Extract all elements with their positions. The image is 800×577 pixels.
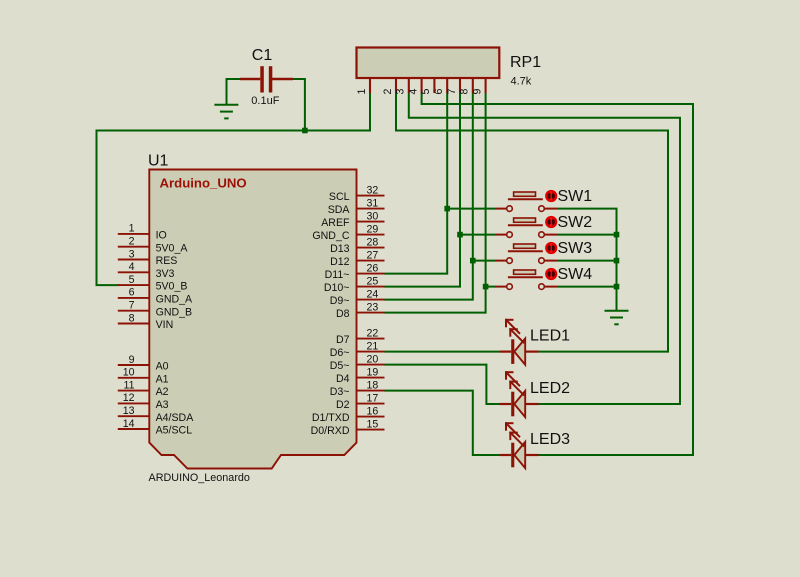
svg-text:U1: U1	[148, 153, 169, 170]
svg-text:D12: D12	[330, 256, 350, 268]
junction SW3 on ground rail	[614, 258, 620, 264]
svg-text:GND_C: GND_C	[312, 230, 349, 242]
SW4 red actuator button	[546, 268, 557, 279]
U1 pin 28 (D13)	[330, 236, 384, 255]
svg-text:25: 25	[367, 275, 379, 287]
switch SW2	[496, 218, 558, 237]
wire SW3 left terminal branch	[473, 260, 497, 262]
svg-text:17: 17	[367, 392, 379, 404]
U1 pin 17 (D2)	[336, 392, 385, 411]
wire RP1 pin6 to U1 pin26 D11	[385, 93, 448, 274]
svg-text:IO: IO	[156, 230, 167, 242]
U1 pin 7 (GND_B)	[118, 300, 192, 319]
U1 pin 18 (D3~)	[330, 379, 385, 398]
wire U1 pin21 D6 to LED1 cathode	[385, 351, 501, 353]
wire RP1 pin7 to U1 pin25 D10	[385, 93, 461, 287]
ground at C1	[214, 105, 238, 119]
IC U1 Arduino_UNO body	[149, 170, 356, 469]
svg-text:7: 7	[446, 88, 458, 94]
svg-text:0.1uF: 0.1uF	[251, 95, 279, 107]
svg-text:LED2: LED2	[530, 380, 570, 397]
svg-text:13: 13	[123, 405, 135, 417]
svg-text:9: 9	[471, 88, 483, 94]
svg-text:5V0_B: 5V0_B	[156, 281, 188, 293]
svg-text:SW1: SW1	[558, 188, 593, 205]
junction SW4 branch on RP1 pin9 column	[483, 284, 489, 290]
U1 pin 9 (A0)	[118, 354, 169, 373]
svg-text:D3~: D3~	[330, 386, 350, 398]
svg-text:D10~: D10~	[324, 282, 350, 294]
wire VCC net: RP1 pin1 to U1 pin5 5V0_B	[97, 93, 371, 285]
svg-text:7: 7	[129, 300, 135, 312]
wire SW1 left terminal branch	[447, 208, 496, 210]
svg-text:1: 1	[356, 88, 368, 94]
svg-text:15: 15	[367, 418, 379, 430]
svg-text:A5/SCL: A5/SCL	[156, 425, 193, 437]
svg-text:D0/RXD: D0/RXD	[311, 425, 350, 437]
svg-text:4: 4	[129, 261, 135, 273]
svg-text:GND_A: GND_A	[156, 294, 193, 306]
svg-text:22: 22	[367, 327, 379, 339]
LED LED1	[500, 319, 539, 365]
svg-text:2: 2	[382, 88, 394, 94]
capacitor C1	[240, 66, 293, 92]
svg-text:28: 28	[367, 236, 379, 248]
LED LED2	[500, 371, 539, 417]
svg-text:30: 30	[367, 210, 379, 222]
svg-text:D5~: D5~	[330, 360, 350, 372]
svg-text:ARDUINO_Leonardo: ARDUINO_Leonardo	[149, 472, 250, 484]
U1 pin 20 (D5~)	[330, 353, 385, 372]
svg-text:LED1: LED1	[530, 328, 570, 345]
svg-text:16: 16	[367, 405, 379, 417]
U1 pin 13 (A4/SDA)	[118, 405, 194, 424]
svg-text:D13: D13	[330, 243, 350, 255]
svg-text:VIN: VIN	[156, 319, 174, 331]
U1 pin 21 (D6~)	[330, 340, 385, 359]
junction C1/VCC rail	[302, 128, 308, 134]
svg-text:23: 23	[367, 301, 379, 313]
junction SW3 branch on RP1 pin8 column	[470, 258, 476, 264]
svg-text:AREF: AREF	[321, 217, 350, 229]
svg-text:3: 3	[129, 248, 135, 260]
svg-text:A0: A0	[156, 361, 169, 373]
U1 pin 8 (VIN)	[118, 312, 173, 331]
wire SW4 right terminal to ground rail	[558, 286, 617, 288]
U1 pin 10 (A1)	[118, 367, 169, 386]
svg-text:C1: C1	[252, 47, 273, 64]
svg-text:10: 10	[123, 367, 135, 379]
svg-text:D1/TXD: D1/TXD	[312, 412, 350, 424]
wire RP1 pin4 to LED3 anode	[422, 93, 693, 455]
U1 pin 3 (RES)	[118, 248, 178, 267]
svg-text:12: 12	[123, 392, 135, 404]
svg-text:19: 19	[367, 366, 379, 378]
svg-text:GND_B: GND_B	[156, 306, 193, 318]
wire SW2 left terminal branch	[460, 234, 497, 236]
RP1 pin 8	[459, 78, 473, 94]
svg-text:11: 11	[124, 379, 135, 391]
svg-text:3V3: 3V3	[156, 268, 175, 280]
svg-text:29: 29	[367, 223, 379, 235]
RP1 pin 3	[395, 78, 409, 94]
svg-text:RES: RES	[156, 255, 178, 267]
U1 pin 2 (5V0_A)	[118, 236, 189, 255]
U1 pin 1 (IO)	[118, 223, 167, 242]
U1 pin 26 (D11~)	[325, 262, 385, 281]
svg-text:24: 24	[367, 288, 379, 300]
svg-text:A3: A3	[156, 399, 169, 411]
svg-text:9: 9	[129, 354, 135, 366]
svg-text:3: 3	[395, 88, 407, 94]
svg-text:A4/SDA: A4/SDA	[156, 412, 195, 424]
resistor pack RP1 body	[357, 48, 500, 79]
svg-text:6: 6	[129, 287, 135, 299]
svg-text:D7: D7	[336, 334, 350, 346]
svg-text:SW2: SW2	[558, 214, 593, 231]
SW3 red actuator button	[546, 242, 557, 253]
svg-text:2: 2	[129, 236, 135, 248]
svg-text:D11~: D11~	[325, 269, 350, 281]
wire C1 right lead to VCC rail	[293, 79, 305, 131]
switch SW3	[496, 244, 558, 263]
svg-text:14: 14	[123, 418, 135, 430]
wire RP1 pin2 to LED1 anode	[396, 93, 668, 352]
wire U1 pin20 D5 to LED2 cathode	[385, 365, 501, 404]
U1 pin 15 (D0/RXD)	[311, 418, 385, 437]
svg-text:6: 6	[433, 88, 445, 94]
wire U1 pin18 D3 to LED3 cathode	[385, 391, 501, 455]
U1 pin 14 (A5/SCL)	[118, 418, 192, 437]
svg-text:21: 21	[367, 340, 379, 352]
U1 pin 22 (D7)	[336, 327, 385, 346]
wire SW4 left terminal branch	[486, 286, 497, 288]
U1 pin 23 (D8)	[336, 301, 385, 320]
svg-text:32: 32	[367, 184, 379, 196]
svg-text:4: 4	[407, 88, 419, 94]
svg-text:D2: D2	[336, 399, 350, 411]
RP1 pin 5	[420, 78, 434, 94]
wire SW2 right terminal to ground rail	[558, 234, 617, 236]
svg-text:8: 8	[129, 312, 135, 324]
svg-text:27: 27	[367, 249, 379, 261]
svg-text:8: 8	[459, 88, 471, 94]
svg-text:Arduino_UNO: Arduino_UNO	[160, 176, 247, 191]
wire RP1 pin3 to LED2 anode	[409, 93, 680, 404]
RP1 pin 9	[471, 78, 485, 94]
svg-text:5: 5	[129, 274, 135, 286]
svg-text:D8: D8	[336, 308, 350, 320]
junction SW4 on ground rail	[614, 284, 620, 290]
svg-text:A2: A2	[156, 386, 169, 398]
svg-text:1: 1	[129, 223, 135, 235]
RP1 pin 7	[446, 78, 460, 94]
junction SW1 branch on RP1 pin6 column	[444, 206, 450, 212]
LED LED3	[500, 422, 539, 468]
U1 pin 29 (GND_C)	[312, 223, 384, 242]
svg-text:18: 18	[367, 379, 379, 391]
U1 pin 11 (A2)	[118, 379, 169, 398]
svg-text:SW4: SW4	[558, 266, 593, 283]
svg-text:D9~: D9~	[330, 295, 350, 307]
U1 pin 19 (D4)	[336, 366, 385, 385]
RP1 pin 6	[433, 78, 447, 94]
svg-text:4.7k: 4.7k	[511, 76, 532, 88]
U1 pin 32 (SCL)	[329, 184, 385, 203]
SW1 red actuator button	[546, 190, 557, 201]
svg-text:D6~: D6~	[330, 347, 350, 359]
RP1 pin 4	[407, 78, 421, 94]
svg-text:D4: D4	[336, 373, 350, 385]
wire SW1 right terminal to ground rail	[558, 209, 617, 311]
wire C1 left lead to ground	[227, 79, 241, 105]
U1 pin 30 (AREF)	[321, 210, 384, 229]
svg-text:31: 31	[367, 197, 379, 209]
svg-text:A1: A1	[156, 373, 169, 385]
U1 pin 25 (D10~)	[324, 275, 385, 294]
junction SW2 on ground rail	[614, 232, 620, 238]
U1 pin 4 (3V3)	[118, 261, 175, 280]
wire SW3 right terminal to ground rail	[558, 260, 617, 262]
switch SW4	[496, 270, 558, 289]
RP1 pin 1	[356, 78, 370, 94]
U1 pin 6 (GND_A)	[118, 287, 193, 306]
svg-text:SCL: SCL	[329, 191, 350, 203]
ground at switches	[605, 311, 629, 325]
svg-text:SDA: SDA	[328, 204, 351, 216]
U1 pin 16 (D1/TXD)	[312, 405, 385, 424]
U1 pin 24 (D9~)	[330, 288, 385, 307]
wire RP1 pin8 to U1 pin24 D9	[385, 93, 473, 300]
svg-text:LED3: LED3	[530, 431, 570, 448]
svg-text:20: 20	[367, 353, 379, 365]
switch SW1	[496, 192, 558, 211]
U1 pin 31 (SDA)	[328, 197, 385, 216]
svg-text:5V0_A: 5V0_A	[156, 242, 189, 254]
U1 pin 27 (D12)	[330, 249, 384, 268]
svg-text:RP1: RP1	[510, 54, 541, 71]
U1 pin 5 (5V0_B)	[118, 274, 188, 293]
junction SW2 branch on RP1 pin7 column	[457, 232, 463, 238]
RP1 pin 2	[382, 78, 396, 94]
svg-text:5: 5	[420, 88, 432, 94]
svg-text:26: 26	[367, 262, 379, 274]
wire RP1 pin9 to U1 pin23 D8	[385, 93, 486, 313]
U1 pin 12 (A3)	[118, 392, 169, 411]
SW2 red actuator button	[546, 216, 557, 227]
svg-text:SW3: SW3	[558, 240, 593, 257]
